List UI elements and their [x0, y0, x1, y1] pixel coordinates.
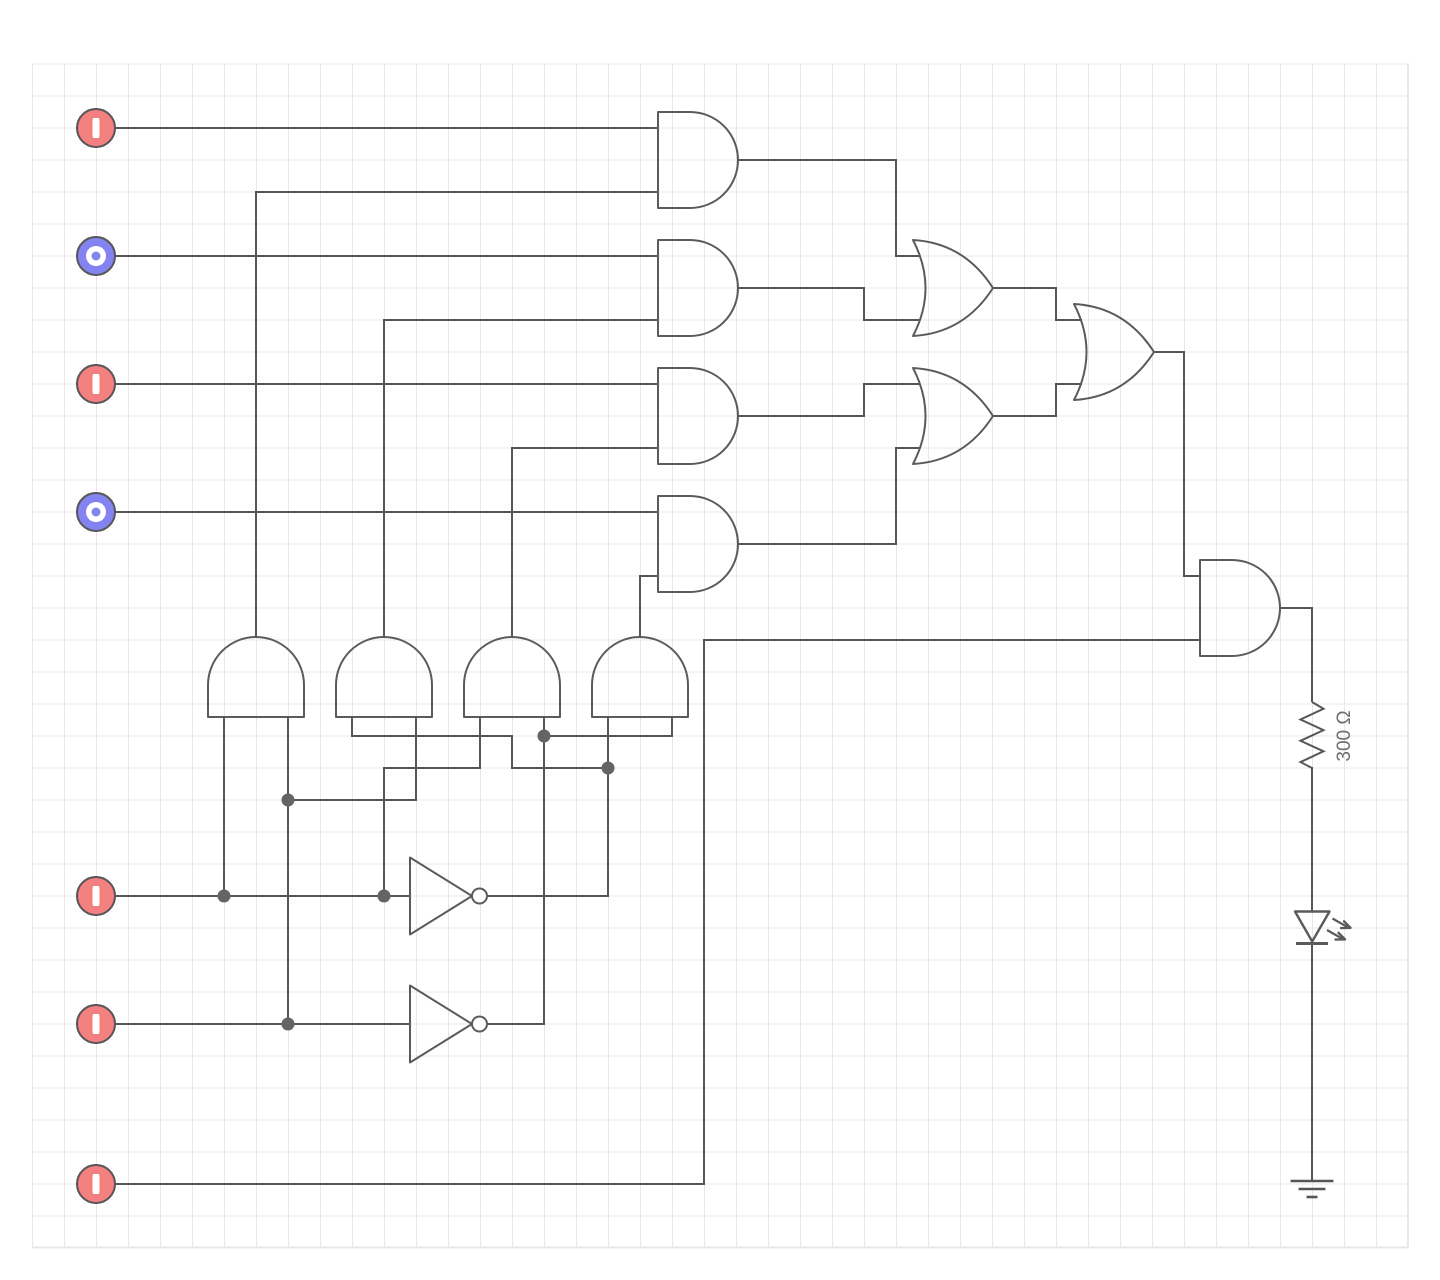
LED D1 light ray arrow 1: [1333, 919, 1348, 928]
and-gate U5 (up): [208, 637, 304, 717]
wire U2 output to U9 input B: [738, 288, 920, 320]
and-gate U6 (up): [336, 637, 432, 717]
wire node (608,768) branch to U6 input A: [352, 717, 608, 768]
input IN3 (toggle ON, value 1): [77, 365, 115, 403]
wire U5 input B down to IN6 line: [287, 717, 289, 1024]
wire U1 output to U9 input A: [738, 160, 920, 256]
junction node IN6/U5.B: [282, 1018, 295, 1031]
wire IN5 to U13 input: [115, 895, 410, 897]
input IN7 (toggle ON, value 1): [77, 1165, 115, 1203]
wire U9 output to U11 input A: [993, 288, 1082, 320]
junction node NOT-IN6 fanout: [538, 730, 551, 743]
or-gate U9: [913, 240, 993, 336]
wire U11 output to U12 input A: [1154, 352, 1200, 576]
and-gate U7 (up): [464, 637, 560, 717]
wire U5 input A down to IN5 line: [223, 717, 225, 896]
wire U5 output to U1 input B: [256, 192, 658, 637]
not-gate U14 triangle: [410, 986, 472, 1063]
and-gate U1: [658, 112, 738, 208]
wire U13 output up to U8 input A: [488, 717, 608, 896]
wire IN6 to U14 input: [115, 1023, 410, 1025]
wire U6 input B to node (288,800): [288, 717, 416, 800]
and-gate U3: [658, 368, 738, 464]
not-gate U13 triangle: [410, 858, 472, 935]
wire U8 output to U4 input B: [640, 576, 658, 637]
wire node (544,736) branch to U8 input B: [544, 717, 672, 736]
svg-text:300 Ω: 300 Ω: [1334, 710, 1355, 761]
input IN1 (toggle ON, value 1): [77, 109, 115, 147]
junction node NOT-IN5 fanout: [602, 762, 615, 775]
not-gate U13 bubble: [472, 889, 487, 904]
or-gate U11: [1074, 304, 1154, 400]
wire IN7 to U12 input B: [115, 640, 1200, 1184]
wire U10 output to U11 input B: [993, 384, 1082, 416]
wire IN1 to U1 input A: [115, 127, 658, 129]
wire U7 output to U3 input B: [512, 448, 658, 637]
and-gate U4: [658, 496, 738, 592]
junction node IN5/U7.A: [378, 890, 391, 903]
wire node (384,896) up to U7 input A: [384, 717, 480, 896]
junction node IN6 branch U6.B: [282, 794, 295, 807]
wire resistor R1 to LED D1: [1311, 767, 1313, 911]
LED D1 light ray arrow 2: [1327, 930, 1342, 939]
and-gate U12: [1200, 560, 1280, 656]
wire U4 output to U10 input B: [738, 448, 920, 544]
wire U6 output to U2 input B: [384, 320, 658, 637]
wire U14 output up to U7 input B: [488, 717, 544, 1024]
ground symbol: [1291, 1181, 1334, 1197]
not-gate U14 bubble: [472, 1017, 487, 1032]
LED D1 triangle (anode): [1295, 912, 1330, 942]
LED D1 cathode bar: [1296, 942, 1328, 945]
wire IN2 to U2 input A: [115, 255, 658, 257]
wire IN3 to U3 input A: [115, 383, 658, 385]
wire IN4 to U4 input A: [115, 511, 658, 513]
input IN2 (toggle OFF, value 0): [77, 237, 115, 275]
input IN6 (toggle ON, value 1): [77, 1005, 115, 1043]
wire U12 output to resistor R1: [1280, 608, 1312, 702]
resistor R1: [1301, 702, 1324, 768]
input IN4 (toggle OFF, value 0): [77, 493, 115, 531]
wire LED D1 to ground: [1311, 943, 1313, 1181]
and-gate U8 (up): [592, 637, 688, 717]
and-gate U2: [658, 240, 738, 336]
or-gate U10: [913, 368, 993, 464]
input IN5 (toggle ON, value 1): [77, 877, 115, 915]
junction node IN5/U5.A: [218, 890, 231, 903]
wire U3 output to U10 input A: [738, 384, 920, 416]
